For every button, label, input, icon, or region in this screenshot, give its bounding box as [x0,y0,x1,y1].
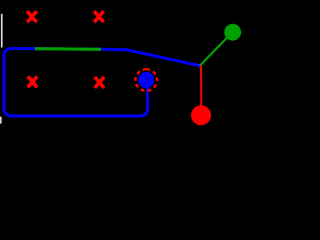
obstacle X bottom-right [95,77,104,88]
wall segment bottom-left [0,117,2,124]
blue path loop [4,49,200,117]
obstacle X bottom-left [28,76,37,87]
obstacle X top-left [27,11,36,22]
green line to goal [200,33,232,66]
robot blue circle [138,72,154,88]
red line to red target [200,66,202,106]
obstacle X top-right [94,11,103,22]
red dashed ring around robot [135,69,157,91]
red target circle [191,105,211,125]
green segment on top line [35,47,101,51]
green goal circle [224,24,241,41]
wall segment top-left [1,14,3,48]
